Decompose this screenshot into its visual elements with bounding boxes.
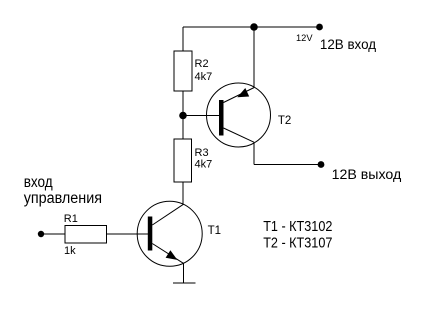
terminal 12V output (318, 161, 325, 168)
wire T1 emitter down (182, 263, 184, 283)
svg-text:Т2 - КТ3107: Т2 - КТ3107 (263, 235, 332, 252)
junction node base divider (179, 112, 187, 120)
svg-text:вход: вход (24, 174, 53, 191)
svg-text:T2: T2 (278, 115, 291, 127)
svg-text:1k: 1k (64, 245, 76, 257)
transistor T2 (PNP) (207, 83, 271, 147)
svg-text:4k7: 4k7 (195, 71, 213, 83)
wire R3 bottom to T1 collector (182, 182, 184, 205)
svg-text:12В вход: 12В вход (320, 37, 376, 52)
svg-text:Т1 - КТ3102: Т1 - КТ3102 (263, 218, 332, 235)
svg-text:4k7: 4k7 (195, 159, 213, 171)
wire T2 emitter top lead (253, 27, 255, 88)
svg-text:T1: T1 (208, 225, 221, 237)
transistor T1 (NPN) (137, 201, 202, 266)
wire R1 to T1 base (107, 233, 148, 235)
svg-text:12V: 12V (296, 33, 313, 43)
ground (173, 282, 196, 284)
resistor R2 (174, 51, 192, 91)
resistor R3 (174, 139, 192, 182)
terminal control input (38, 231, 44, 237)
wire T2 collector down (253, 142, 255, 164)
wire top rail (183, 26, 319, 28)
svg-text:управления: управления (24, 190, 102, 207)
junction top rail (250, 23, 258, 31)
wire R2 bottom to R3 top (182, 91, 184, 139)
terminal 12V input (316, 24, 323, 31)
wire R2 top lead (182, 27, 184, 51)
wire to T2 base (183, 115, 219, 117)
svg-text:R1: R1 (64, 213, 78, 225)
wire output (254, 164, 321, 166)
svg-text:R3: R3 (195, 147, 209, 159)
wire input to R1 (41, 233, 65, 235)
svg-text:12В выход: 12В выход (332, 167, 402, 182)
resistor R1 (65, 226, 107, 244)
svg-text:R2: R2 (195, 58, 209, 70)
